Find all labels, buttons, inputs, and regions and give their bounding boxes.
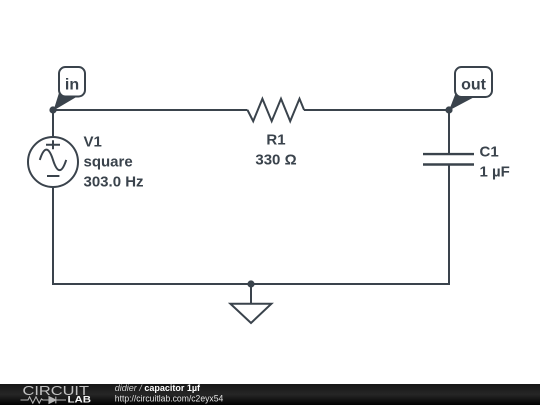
svg-text:square: square xyxy=(84,153,133,170)
svg-text:1 µF: 1 µF xyxy=(480,163,510,180)
CircuitLab logo schematic line (resistor + diode) xyxy=(21,397,67,404)
CircuitLab logo wordmark xyxy=(23,384,92,405)
svg-text:330 Ω: 330 Ω xyxy=(255,151,296,168)
node in junction dot xyxy=(49,106,56,113)
svg-text:didier / capacitor 1µf: didier / capacitor 1µf xyxy=(115,383,201,393)
svg-text:V1: V1 xyxy=(84,133,102,150)
wire left vertical (node in down to V1 top) xyxy=(52,110,54,138)
wire top-left segment (node in to R1 left lead) xyxy=(53,109,248,111)
ground xyxy=(230,284,271,323)
node in flag xyxy=(54,67,86,111)
footer attribution text xyxy=(115,383,224,403)
svg-text:in: in xyxy=(65,76,79,93)
wire left vertical lower + bottom wire + right vertical lower xyxy=(53,165,449,284)
node out junction dot xyxy=(445,106,452,113)
capacitor C1 xyxy=(423,143,510,180)
node out flag xyxy=(449,67,492,111)
svg-text:303.0 Hz: 303.0 Hz xyxy=(84,173,144,190)
resistor R1 xyxy=(248,99,305,169)
svg-text:R1: R1 xyxy=(266,131,285,148)
svg-text:out: out xyxy=(461,77,487,94)
wire top-right segment (R1 right lead to node out) xyxy=(304,109,449,111)
svg-text:LAB: LAB xyxy=(68,395,92,405)
svg-text:C1: C1 xyxy=(480,143,499,160)
wire right vertical (node out down to C1 top plate) xyxy=(448,110,450,155)
ground junction dot xyxy=(247,280,254,287)
footer bar xyxy=(0,384,540,405)
svg-text:http://circuitlab.com/c2eyx54: http://circuitlab.com/c2eyx54 xyxy=(115,393,224,403)
voltage source V1 xyxy=(28,133,144,190)
